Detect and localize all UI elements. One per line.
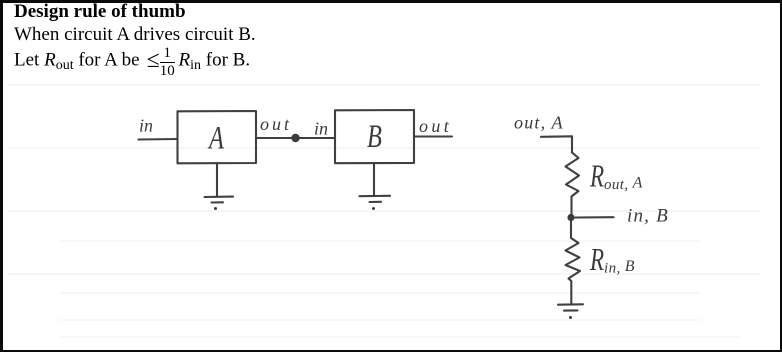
svg-text:out, A: out, A [514,113,564,133]
svg-text:in: in [139,116,153,136]
svg-text:out, A: out, A [604,175,643,194]
svg-text:in, B: in, B [627,206,669,227]
svg-text:B: B [367,119,382,155]
svg-text:in, B: in, B [604,258,635,277]
svg-text:out: out [419,116,452,136]
svg-text:out: out [260,114,292,134]
svg-text:R: R [589,159,604,195]
svg-text:R: R [589,242,604,278]
svg-text:in: in [314,119,328,139]
svg-text:A: A [207,120,224,156]
